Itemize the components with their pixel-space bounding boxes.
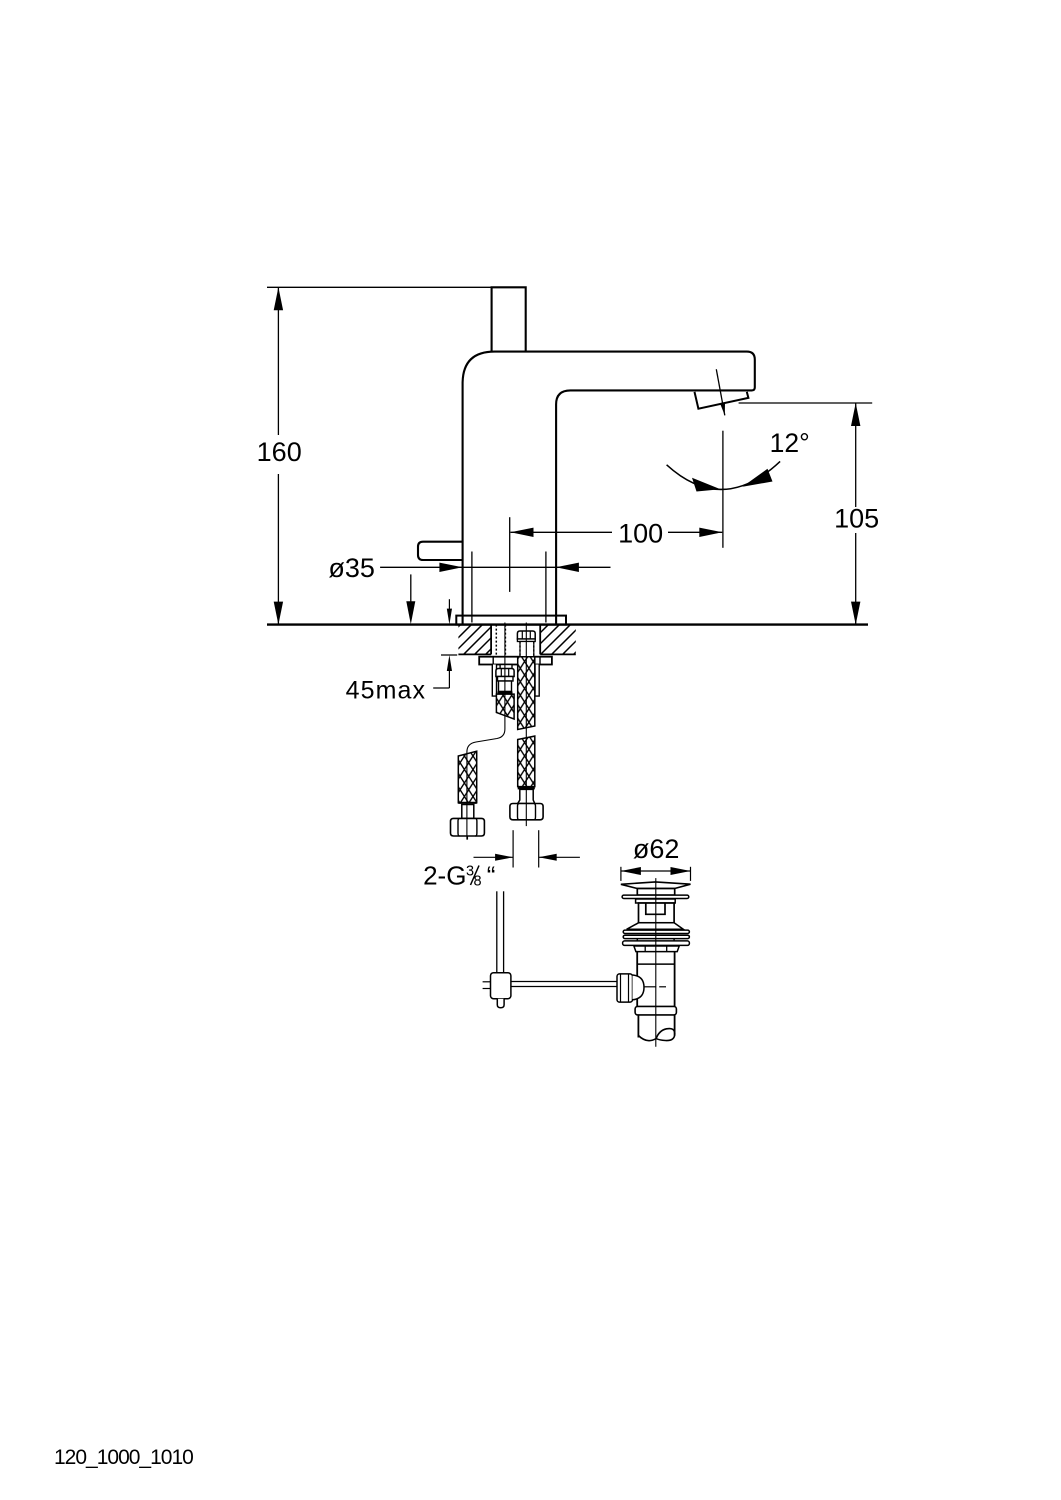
right hose neck [518,789,535,803]
arrow to countertop [410,574,412,620]
left hose collar [498,677,514,682]
svg-text:ø35: ø35 [328,553,375,583]
left hose braided segment upper [496,694,514,719]
right hose end hex nut [510,804,543,820]
counter slab bottom [458,653,491,655]
horizontal linkage rod [511,981,618,983]
svg-text:160: 160 [257,437,302,467]
drain ring 1 [623,930,689,933]
drain plug neck [637,889,674,896]
left hose end hex nut [451,818,485,836]
dimension 105 extension line [739,402,873,404]
countertop line [267,623,868,625]
drain body waist [639,903,675,923]
counter slab hatching [425,620,630,660]
svg-text:100: 100 [618,519,663,549]
dimension line 160 [277,287,279,435]
outlet vertical axis [722,431,724,548]
ball joint dome [633,975,645,1000]
aerator (tilted outlet) [695,392,749,409]
svg-text:105: 105 [834,504,879,534]
drain overflow slot [646,904,665,915]
left hose route line [467,623,505,840]
clamp stub [497,999,504,1008]
drain neck 2 [636,939,638,941]
right hose centerline in break [525,623,527,820]
side lever [418,542,463,560]
mounting bracket legs [492,665,496,697]
clamp side ticks [483,981,491,983]
faucet centerline [509,517,511,592]
right hose crimp band [518,787,535,790]
dimension line dia35 [380,566,610,568]
drain tailpipe lower [637,1015,639,1038]
drain centerline [655,878,657,1047]
drain tailpipe upper [636,952,638,1007]
pipe break cut [638,1029,674,1041]
svg-text:“: “ [487,861,496,891]
drain plug cap [621,882,691,889]
left hose braided segment lower [458,751,476,803]
left hose sleeve [499,681,512,691]
svg-text:2-G: 2-G [423,861,466,891]
right hose nut washer [517,639,535,642]
counter hole walls [490,625,492,655]
faucet handle stem [492,287,526,351]
left hose crimp band [498,691,513,694]
dimension 160 extension line top [267,286,492,288]
svg-text:45max: 45max [346,677,427,705]
left hose hex nut [496,669,514,677]
dimension 45max [448,599,450,620]
base plate [456,616,566,625]
swing arc 12 deg [667,461,781,489]
dimension line 105 [855,403,857,507]
mounting washer plate [479,657,552,665]
right hose threaded neck [520,642,534,657]
drain lower cone [627,923,684,930]
ball joint dashes [645,986,657,988]
dimension line dia62 [621,870,691,872]
dimension line 2-G3/8 [474,856,514,858]
drain upper flange [636,899,676,903]
dimension dia62 extension lines [620,867,622,881]
left hose neck [462,805,474,819]
linkage clamp block [491,973,511,999]
svg-text:120_1000_1010: 120_1000_1010 [54,1446,193,1469]
right hose hex nut in hole [517,631,535,639]
svg-text:8: 8 [474,874,482,890]
right hose braided segment lower [518,736,535,787]
drain pull rod vertical [496,891,498,972]
drain ring 2 [623,935,689,938]
dimension 2-G3/8 extension lines [512,830,514,867]
svg-text:12°: 12° [770,428,810,458]
dimension line 100 [511,531,613,533]
dia35 inner verticals [471,552,473,623]
aerator axis line 12 deg [716,369,725,415]
left hose threaded tube in hole [495,625,497,657]
faucet body outline [463,352,755,625]
union compression ring [635,1006,676,1015]
drain ring 3 [623,941,690,946]
right hose braided segment upper [518,657,535,730]
ball joint hex nut [617,974,633,1002]
drain hex nut band [634,946,679,952]
svg-text:ø62: ø62 [633,834,680,864]
left hose tube stub below washer [500,665,512,670]
drain top washer [622,895,689,898]
